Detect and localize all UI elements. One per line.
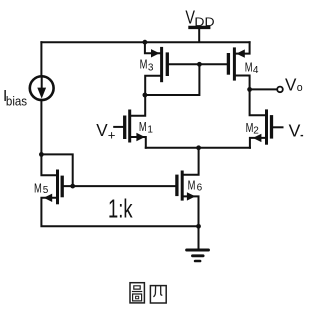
wire left branch from rail to Ibias	[40, 42, 42, 75]
transistor M5	[44, 170, 63, 205]
junction left wire / M5 gate feed	[39, 152, 44, 157]
svg-text:V: V	[285, 76, 297, 95]
label M6	[188, 178, 203, 194]
svg-text:M: M	[245, 59, 253, 74]
label M5	[34, 180, 49, 196]
svg-text:+: +	[108, 127, 116, 142]
svg-text:6: 6	[197, 182, 203, 193]
wire output node to Vo terminal	[250, 88, 277, 90]
wire M5 gate feed (diode connection)	[41, 154, 72, 186]
label M1	[139, 119, 154, 135]
junction tail node	[196, 145, 201, 150]
wire gate net M5-M6	[64, 185, 175, 187]
junction node A	[143, 93, 148, 98]
junction gate net / node A riser	[197, 62, 202, 67]
label Ibias	[3, 88, 27, 109]
label VDD	[185, 7, 214, 30]
label M4	[245, 59, 259, 76]
wire tail node	[146, 147, 250, 149]
ground	[187, 226, 209, 261]
wire VDD rail	[41, 41, 249, 43]
wire M2 gate to V-	[273, 126, 282, 128]
wire M1 gate to V+	[114, 126, 123, 128]
svg-text:1: 1	[147, 125, 153, 136]
transistor M2	[253, 109, 272, 144]
svg-text:M: M	[139, 119, 147, 134]
label V-	[289, 121, 304, 141]
wire M2 source to tail node	[250, 138, 265, 148]
caption 圖四 (Figure 4)	[130, 283, 166, 303]
transistor M1	[125, 110, 145, 143]
svg-text:M: M	[188, 178, 196, 193]
transistor M6	[177, 171, 196, 201]
svg-text:bias: bias	[6, 94, 28, 109]
junction gate net / M5 gate feed	[70, 184, 75, 189]
svg-text:3: 3	[148, 63, 154, 74]
svg-text:V: V	[96, 121, 108, 140]
label V+	[96, 121, 116, 143]
current source Ibias	[30, 76, 54, 100]
wire gate net M3-M4	[169, 63, 227, 65]
wire M5 source to ground rail	[41, 198, 198, 227]
svg-text:M: M	[140, 56, 148, 71]
svg-text:M: M	[34, 180, 42, 195]
wire M3 source tap from rail	[145, 42, 160, 53]
svg-text:o: o	[297, 82, 303, 94]
svg-text:DD: DD	[194, 15, 214, 29]
wire tail to M6 drain	[184, 148, 199, 175]
svg-text:1:k: 1:k	[108, 194, 133, 224]
wire M6 source to ground rail	[184, 196, 199, 226]
svg-text:2: 2	[253, 125, 259, 136]
wire M4 source from rail corner	[236, 42, 250, 53]
wire M1 drain up to node A	[131, 95, 145, 116]
junction ground rail / M6 source	[196, 224, 201, 229]
wire node A to mirror gate net	[145, 64, 200, 95]
label M2	[246, 120, 260, 137]
transistor M3	[151, 47, 167, 82]
transistor M4	[228, 47, 244, 80]
junction output node	[247, 87, 252, 92]
label M3	[140, 56, 154, 73]
junction rail / M3 source	[143, 40, 148, 45]
wire M3 drain down to node A	[145, 76, 160, 95]
svg-text:V: V	[289, 121, 301, 141]
output terminal Vo	[277, 87, 283, 93]
svg-text:5: 5	[43, 185, 49, 196]
svg-text:4: 4	[253, 65, 259, 76]
VDD symbol	[190, 27, 209, 42]
label Vo	[285, 76, 303, 95]
wire M4 drain to output node	[236, 76, 250, 90]
wire M2 drain to output node	[250, 89, 265, 115]
wire Ibias to M5 drain	[41, 101, 56, 175]
wire M1 source to tail node	[131, 137, 146, 148]
svg-text:M: M	[246, 120, 254, 135]
